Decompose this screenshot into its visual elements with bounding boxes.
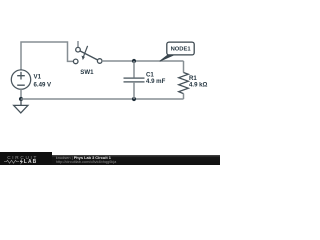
footer logo box (0, 152, 52, 165)
capacitor C1 (124, 61, 145, 99)
svg-text:V1: V1 (34, 73, 42, 80)
node junction dot bottom (132, 97, 136, 101)
node flag NODE1 box (167, 42, 194, 55)
node junction dot (19, 97, 23, 101)
svg-text:SW1: SW1 (80, 69, 94, 76)
wire top rail (102, 60, 184, 62)
wire (20, 89, 22, 99)
logo CIRCUIT text (7, 156, 38, 161)
logo LAB text (24, 160, 38, 165)
svg-text:6.49 V: 6.49 V (34, 81, 53, 88)
node flag NODE1 pointer (160, 55, 175, 61)
svg-text:4.9 kΩ: 4.9 kΩ (189, 81, 208, 88)
voltage source V1 (11, 70, 30, 89)
switch SW1 (73, 41, 102, 64)
footer bar (0, 155, 220, 165)
wire (21, 42, 73, 70)
wire bottom rail (21, 98, 184, 100)
svg-text:NODE1: NODE1 (171, 47, 192, 53)
footer url line (56, 160, 117, 164)
resistor R1 (179, 61, 189, 99)
logo resistor zigzag (0, 0, 220, 165)
footer title line (56, 156, 111, 160)
svg-text:4.9 mF: 4.9 mF (146, 78, 166, 85)
node junction dot top (132, 59, 136, 63)
ground (14, 99, 28, 113)
